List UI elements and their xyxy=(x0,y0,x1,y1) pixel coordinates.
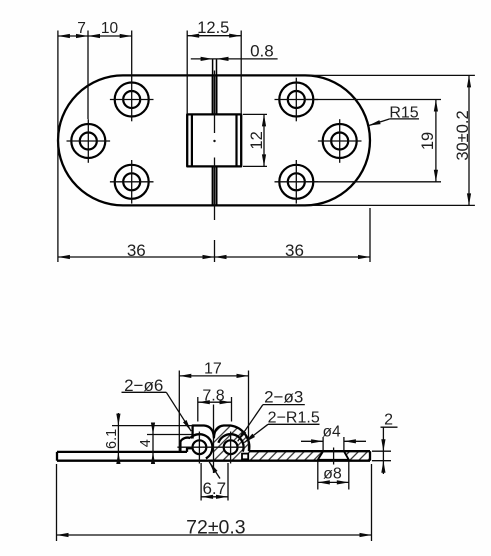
leader 2-φ3 xyxy=(236,388,305,443)
pin axis centerline xyxy=(214,71,216,134)
right leaf right end xyxy=(369,451,371,461)
dimension 17 xyxy=(179,360,248,451)
dimension φ8 xyxy=(318,462,349,490)
svg-text:R15: R15 xyxy=(389,105,418,122)
dimension 72±0.3 xyxy=(57,464,372,541)
countersink hole (white) xyxy=(318,451,349,460)
svg-text:2: 2 xyxy=(384,412,393,429)
svg-text:12.5: 12.5 xyxy=(197,19,229,37)
left leaf bend-up edge xyxy=(180,438,190,452)
hole A left-middle xyxy=(67,119,111,163)
leaf gap line left lower xyxy=(212,166,214,205)
dimension 0.8 xyxy=(191,41,278,61)
dimension 7.8 xyxy=(198,387,232,421)
barrel inner edge right xyxy=(235,114,237,166)
gap extension lines to 0.8 dim xyxy=(212,59,214,75)
leader 2-R1.5 xyxy=(243,410,320,445)
svg-text:ø4: ø4 xyxy=(323,423,341,440)
svg-text:4: 4 xyxy=(138,439,154,447)
leaf gap line right lower xyxy=(216,166,218,205)
svg-text:17: 17 xyxy=(204,360,222,377)
left leaf left end xyxy=(56,452,58,461)
svg-text:0.8: 0.8 xyxy=(250,41,274,60)
svg-text:6.7: 6.7 xyxy=(202,479,226,498)
pin hole right xyxy=(224,440,238,454)
hole E bottom-right xyxy=(275,160,319,204)
left curl outer arc xyxy=(190,434,212,458)
svg-text:30±0.2: 30±0.2 xyxy=(454,110,472,160)
svg-text:19: 19 xyxy=(419,132,437,150)
hole C bottom-left xyxy=(110,160,154,204)
svg-text:6.1: 6.1 xyxy=(104,429,120,449)
dimension φ4 xyxy=(301,423,366,450)
continuous bottom surface line xyxy=(57,460,370,462)
right curl outer arc xyxy=(218,434,243,451)
pin crosshair horizontal xyxy=(177,446,244,448)
svg-text:7.8: 7.8 xyxy=(202,387,224,404)
knuckle barrel rectangle xyxy=(187,114,241,166)
svg-text:2−R1.5: 2−R1.5 xyxy=(268,410,320,427)
hinge body stadium outline xyxy=(58,75,370,205)
svg-text:2−ø6: 2−ø6 xyxy=(124,376,163,395)
dimension 12 xyxy=(243,114,267,166)
countersink centerline xyxy=(333,448,335,465)
svg-text:10: 10 xyxy=(101,20,119,37)
radius leader R15 xyxy=(368,105,419,128)
dimension 6.7 xyxy=(201,461,228,501)
pin crosshair verticals xyxy=(198,432,200,464)
recess step at right leaf left end xyxy=(242,454,248,460)
svg-text:7: 7 xyxy=(77,20,86,37)
svg-text:36: 36 xyxy=(285,241,304,260)
svg-text:2−ø3: 2−ø3 xyxy=(264,388,303,407)
hole D top-right xyxy=(275,78,319,122)
dimension 2 xyxy=(372,412,398,474)
dimension 7 and 10 xyxy=(58,20,132,262)
leader 2-φ6 xyxy=(122,376,193,432)
dimension 6.1 xyxy=(104,413,193,464)
plate step below left curl xyxy=(187,448,193,452)
bottom view centerline xyxy=(213,405,215,474)
leaf gap line right upper xyxy=(216,75,218,114)
dimension 19 xyxy=(306,100,441,182)
barrel inner edge left xyxy=(191,114,193,166)
central link outline xyxy=(193,426,250,452)
svg-text:12: 12 xyxy=(248,131,266,149)
hole B top-left xyxy=(110,78,154,122)
svg-text:36: 36 xyxy=(127,241,146,260)
right leaf plate top edge xyxy=(249,450,370,452)
dimension 30±0.2 xyxy=(310,75,475,205)
dimension 4 xyxy=(138,423,192,465)
dimension 36 left and 36 right xyxy=(58,208,370,262)
dimension 12.5 xyxy=(187,19,241,114)
pin hole left xyxy=(193,440,207,454)
leaf gap line left upper xyxy=(212,75,214,114)
svg-text:72±0.3: 72±0.3 xyxy=(186,517,246,539)
hatched sectioned right leaf (plate, curl, link) xyxy=(214,425,370,460)
svg-text:ø8: ø8 xyxy=(323,466,342,483)
hole F right-middle xyxy=(318,119,362,163)
left leaf plate top edge xyxy=(57,451,187,453)
